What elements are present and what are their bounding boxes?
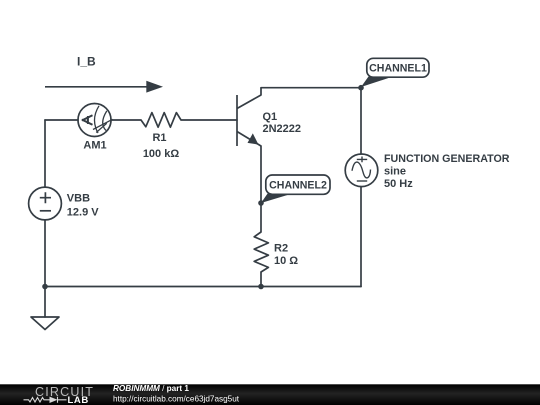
function generator V1 [345, 154, 378, 187]
wire: collector to CHANNEL1 junction [261, 87, 361, 89]
wire: R2 bottom to bottom wire [260, 272, 262, 287]
svg-text:CHANNEL1: CHANNEL1 [369, 63, 427, 75]
wire: left vertical from top corner to VBB top [44, 120, 46, 187]
voltage source VBB [29, 187, 62, 220]
svg-text:http://circuitlab.com/ce63jd7a: http://circuitlab.com/ce63jd7asg5ut [113, 395, 240, 404]
ground [31, 317, 59, 330]
node label CHANNEL1 [361, 58, 429, 87]
junction node at collector/CHANNEL1 [358, 85, 364, 91]
svg-text:CHANNEL2: CHANNEL2 [269, 180, 327, 192]
annotation arrow I_B [45, 86, 148, 88]
node label CHANNEL2 [261, 175, 330, 203]
svg-text:2N2222: 2N2222 [263, 123, 302, 135]
svg-text:LAB: LAB [68, 395, 89, 405]
svg-text:I_B: I_B [77, 55, 96, 69]
svg-text:sine: sine [384, 166, 406, 178]
svg-text:VBB: VBB [67, 193, 90, 205]
wire: R1 to Q1 base [181, 119, 237, 121]
junction node at R2 bottom [258, 284, 264, 290]
junction node at CHANNEL2 [258, 200, 264, 206]
resistor R2 [254, 232, 268, 272]
CircuitLab logo wire with resistor and diode [24, 397, 67, 403]
transistor Q1 [237, 88, 261, 146]
ammeter AM1 [78, 104, 113, 137]
svg-text:FUNCTION GENERATOR: FUNCTION GENERATOR [384, 153, 510, 165]
resistor R1 [141, 113, 181, 128]
wire: emitter down through CHANNEL2 node to R2 [260, 146, 262, 232]
junction node at bottom left [42, 284, 48, 290]
svg-text:ROBINMMM / part 1: ROBINMMM / part 1 [113, 384, 189, 393]
svg-text:12.9 V: 12.9 V [67, 207, 99, 219]
wire: CHANNEL1 junction down to function generator [360, 88, 362, 154]
svg-text:R1: R1 [152, 132, 166, 144]
svg-text:R2: R2 [274, 243, 288, 255]
wire: function generator bottom to bottom wire [360, 187, 362, 287]
svg-text:50 Hz: 50 Hz [384, 178, 413, 190]
wire: ammeter to R1 [111, 119, 141, 121]
ammeter A letter [83, 116, 92, 125]
wire: bottom horizontal [45, 286, 361, 288]
transistor Q1 emitter arrowhead [248, 133, 259, 144]
svg-text:Q1: Q1 [263, 111, 278, 123]
svg-text:10 Ω: 10 Ω [274, 255, 298, 267]
svg-text:AM1: AM1 [83, 140, 106, 152]
svg-text:100 kΩ: 100 kΩ [143, 148, 180, 160]
wire: VBB bottom to bottom-left junction and ground stem [44, 220, 46, 317]
wire: top horizontal from corner to ammeter [45, 119, 78, 121]
